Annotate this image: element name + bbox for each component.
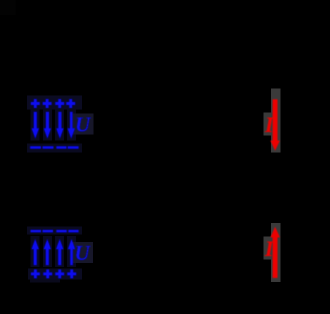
plus charge 4 (66, 99, 75, 108)
minus charge 4 (68, 146, 79, 149)
field arrow 3 (56, 112, 64, 139)
plus charge 1 (31, 269, 40, 278)
plus charge 3 (55, 99, 64, 108)
halo band behind C1 minus row (27, 144, 82, 153)
halo columns behind C1 field arrows (31, 110, 40, 141)
minus charge 4 (68, 230, 78, 233)
plus charge 4 (67, 269, 76, 278)
plus charge 1 (31, 99, 40, 108)
halo behind bottom current label I (264, 237, 273, 260)
halo columns behind C2 field arrows (31, 236, 40, 267)
current arrow I2 (pointing up, right branch bottom) (270, 227, 280, 278)
halo stub below C2 plus row (30, 280, 60, 283)
capacitor C1 E-field arrows (pointing down) (32, 112, 76, 139)
field arrow 2 (44, 112, 52, 139)
minus charge 1 (30, 146, 41, 149)
field arrow 2 (44, 239, 52, 265)
capacitor C2 E-field arrows (pointing up) (31, 239, 75, 265)
svg-text:I: I (264, 236, 275, 261)
halo band behind C2 plus row (28, 269, 82, 280)
capacitor C2 bottom plate charges: plus signs (31, 269, 76, 278)
minus charge 3 (56, 146, 66, 149)
minus charge 3 (56, 230, 67, 233)
field arrow 4 (68, 239, 76, 265)
halo behind top current label I (264, 113, 273, 136)
halo band behind C2 minus row (27, 227, 82, 235)
field arrow 3 (56, 239, 64, 265)
plus charge 2 (43, 269, 52, 278)
corner patch (0, 0, 16, 15)
capacitor C1 bottom plate charges: minus signs (30, 146, 79, 149)
minus charge 1 (31, 230, 42, 233)
capacitor C1 top plate charges: plus signs (31, 99, 75, 108)
field arrow 4 (67, 112, 75, 139)
halo behind top current arrow (271, 89, 281, 153)
halo box behind C1 voltage label U (73, 114, 94, 135)
halo band behind C1 plus row (27, 96, 82, 110)
svg-text:I: I (264, 112, 275, 137)
plus charge 2 (43, 99, 52, 108)
capacitor C2 top plate charges: minus signs (31, 230, 79, 233)
minus charge 2 (43, 146, 54, 149)
halo box behind C2 voltage label U (72, 242, 93, 263)
field arrow 1 (31, 239, 39, 265)
svg-text:U: U (75, 241, 92, 265)
plus charge 3 (55, 269, 64, 278)
minus charge 2 (43, 230, 54, 233)
halo behind bottom current arrow (271, 223, 281, 282)
svg-text:U: U (75, 113, 92, 137)
field arrow 1 (32, 112, 40, 139)
current arrow I1 (pointing down, right branch top) (270, 99, 280, 150)
